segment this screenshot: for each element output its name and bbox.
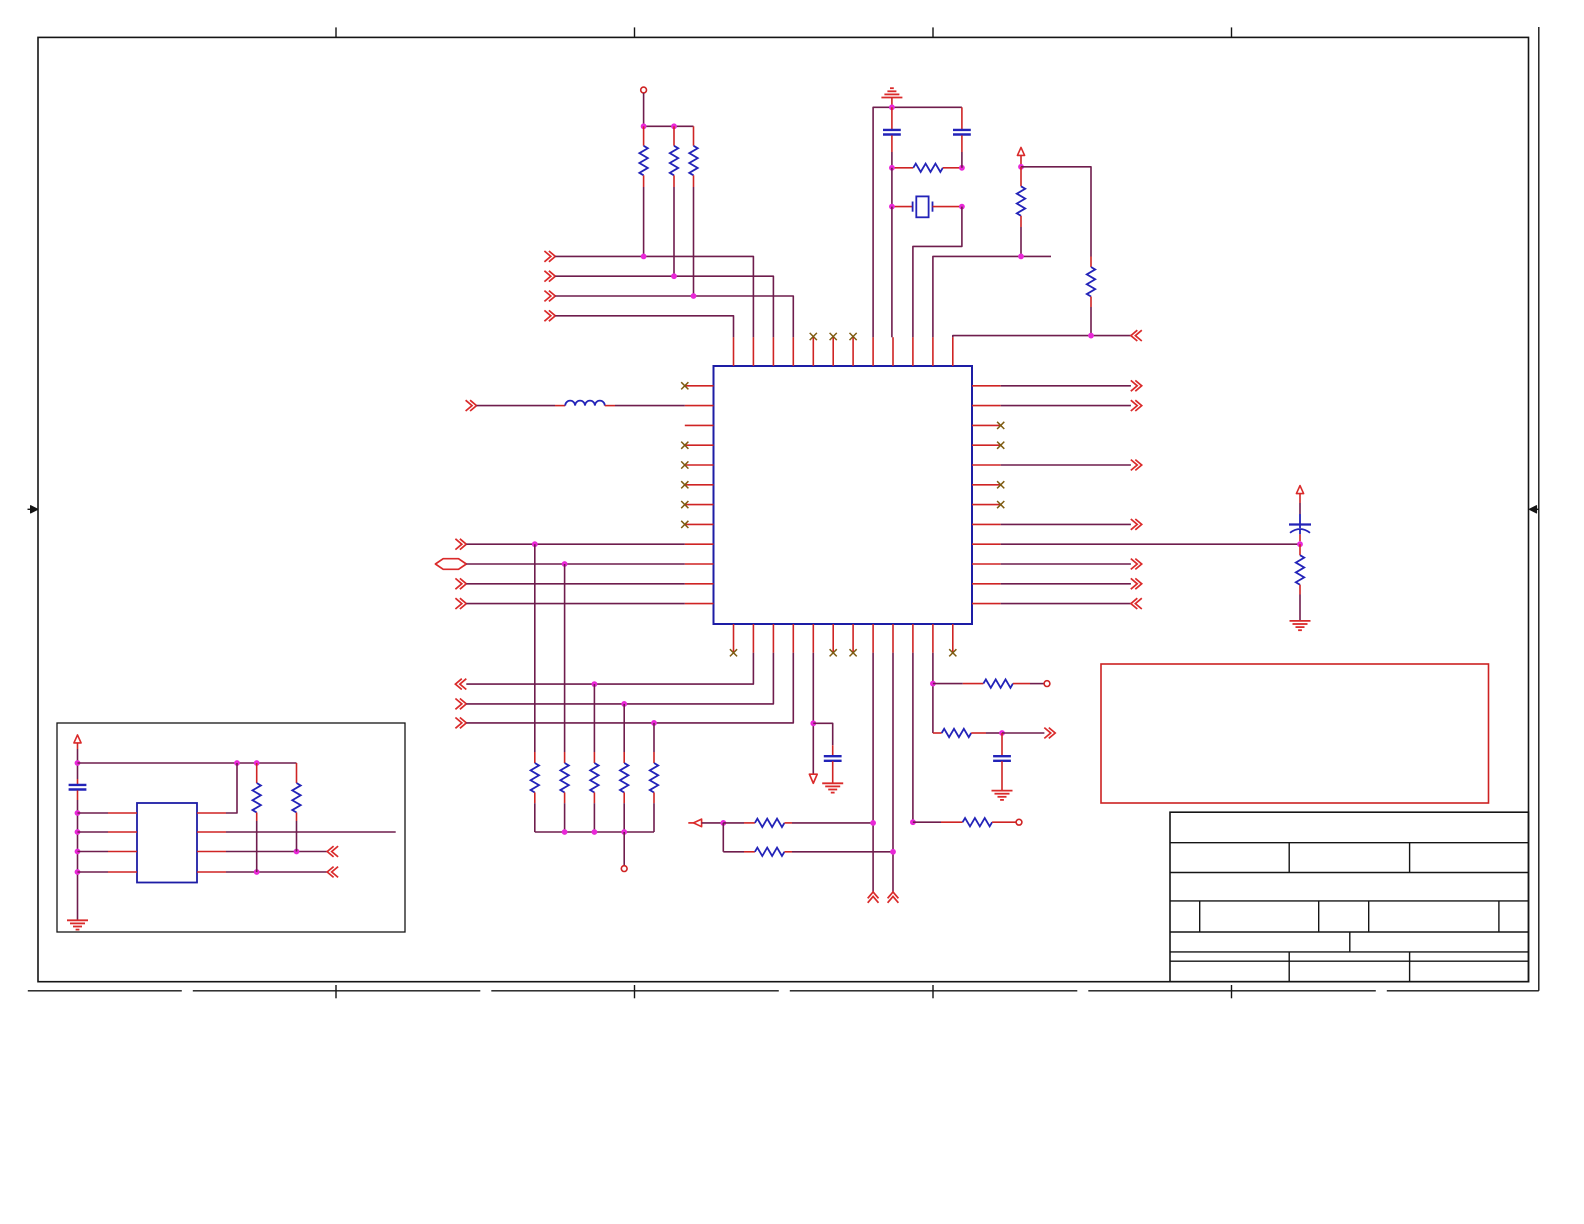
junction row564/riser xyxy=(562,561,568,567)
wire pin933 down xyxy=(932,653,934,733)
wire arrow node down xyxy=(722,823,724,852)
inductor L1 xyxy=(565,401,605,406)
ic U1 body xyxy=(714,366,973,624)
resistor R4 xyxy=(892,167,913,169)
junction bus x=564.6 xyxy=(562,829,568,835)
wire right row y=544.2 long xyxy=(1001,543,1300,545)
wire R18 to row872 xyxy=(256,821,258,872)
junction R17/C5 xyxy=(999,730,1005,736)
capacitor C5 xyxy=(1001,733,1003,756)
resistor R17 xyxy=(933,732,942,734)
wire pin813 down xyxy=(812,653,814,774)
no-connect U1 right pin y=484.8 xyxy=(997,481,1004,488)
junction rail y=851.5 xyxy=(75,849,81,855)
resistor R11 xyxy=(623,752,625,763)
connector input row y=296.0 xyxy=(544,291,555,302)
wire C2 to R4 xyxy=(961,152,963,168)
wire right row y=405.6 xyxy=(1001,405,1131,407)
sheet frame top zone ticks xyxy=(335,27,337,37)
wire row y=544.2 xyxy=(466,543,685,545)
ground GND4 xyxy=(992,790,1013,792)
terminal circle J1 xyxy=(641,87,647,93)
ground GND2 xyxy=(1290,620,1311,622)
junction pin873/R13 xyxy=(870,820,876,826)
wire R5 to row256 xyxy=(1020,227,1022,256)
wire row y=335.6 xyxy=(953,336,1131,338)
wire row y=703.9 xyxy=(466,653,773,704)
connector output row y=335.6 xyxy=(1131,330,1142,341)
wire row y=684.1 xyxy=(466,653,753,684)
ic U1 left pin stubs xyxy=(685,385,714,387)
no-connect U1 top pin x=813.3 xyxy=(810,333,817,340)
junction bus x=624.2 xyxy=(621,829,627,835)
no-connect U1 bottom pin x=733.5 xyxy=(730,649,737,656)
junction row704/riser xyxy=(621,701,627,707)
wire bank riser x=534.8 xyxy=(534,544,536,752)
wire crystal top rail xyxy=(873,107,962,337)
connector output row y=465.0 xyxy=(1131,460,1142,471)
junction row684/riser xyxy=(592,681,598,687)
connector input row y=315.8 xyxy=(544,310,555,321)
wire row y=722.9 xyxy=(466,653,793,723)
no-connect U1 bottom pin x=952.8 xyxy=(949,649,956,656)
no-connect U1 left pin y=524.4 xyxy=(681,521,688,528)
wire row y=564 xyxy=(466,563,685,565)
wire R19 to row851.5 xyxy=(296,821,298,852)
ic U2 body xyxy=(137,803,197,883)
junction rail/R1 xyxy=(641,123,647,129)
wire row y=276.2 to pin x=773.4 xyxy=(555,276,773,337)
hierarchical input arrow xyxy=(688,822,693,824)
wire PWR1 node to right riser xyxy=(1021,167,1091,257)
resistor R14 xyxy=(723,851,744,853)
wire U2 left pin y=851.5 to rail xyxy=(78,851,109,853)
power flag PWR1 xyxy=(1017,147,1024,155)
wire right row y=385.8 xyxy=(1001,385,1131,387)
resistor R9 xyxy=(564,752,566,763)
wire xtal left rail to pin893 xyxy=(891,207,893,338)
junction R4 left xyxy=(889,165,895,171)
ic U1 bottom pin stubs xyxy=(733,624,735,653)
lead L1 left xyxy=(555,405,565,407)
connector output row y=583.8 xyxy=(1131,578,1142,589)
power flag PWR4 down xyxy=(809,774,817,783)
wire right row y=603.6 xyxy=(1001,603,1131,605)
capacitor C6 xyxy=(77,779,79,784)
junction rail y=763 xyxy=(75,760,81,766)
junction bus x=594.4 xyxy=(592,829,598,835)
junction C3/row xyxy=(1297,541,1303,547)
wire PWR2 to C3 xyxy=(1299,503,1301,514)
ground GND5 xyxy=(67,919,88,921)
capacitor C1 xyxy=(891,107,893,129)
connector output row y=405.6 xyxy=(1131,400,1142,411)
wire bank riser x=564.6 xyxy=(564,564,566,752)
terminal circle J3 xyxy=(1016,819,1022,825)
wire R3 to row xyxy=(693,187,695,296)
junction arrow node xyxy=(720,820,726,826)
connector input row y=722.9 xyxy=(455,718,466,729)
connector output row y=524.4 xyxy=(1131,519,1142,530)
wire right row y=465.0 xyxy=(1001,464,1131,466)
wire bank riser lower x=534.8 xyxy=(534,803,536,832)
connector input row L2 xyxy=(466,400,477,411)
wire bank bus y=832 xyxy=(535,831,654,833)
resistor R5 xyxy=(1020,167,1022,187)
notes box xyxy=(1101,664,1489,803)
terminal circle J2 xyxy=(621,866,627,872)
wire row y=315.8 to pin x=733.5 xyxy=(555,316,733,337)
junction row276/R2 xyxy=(671,273,677,279)
resistor R3 xyxy=(693,126,695,146)
wire bank riser x=654.0 xyxy=(653,723,655,752)
terminal circle J4 xyxy=(1044,681,1050,687)
resistor R19 xyxy=(296,763,298,783)
connector chevron up x=873.1 xyxy=(868,892,879,903)
capacitor C2 xyxy=(961,107,963,129)
connector input row y=603.6 xyxy=(1131,598,1142,609)
wire right row y=564.0 xyxy=(1001,563,1131,565)
crystal Y1 xyxy=(892,206,913,208)
wire J1 down xyxy=(643,93,645,126)
no-connect U1 right pin y=445.2 xyxy=(997,442,1004,449)
no-connect U1 left pin y=445.2 xyxy=(681,442,688,449)
wire pin913 down xyxy=(912,653,914,822)
wire row y=256.4 xyxy=(933,256,1051,337)
no-connect U1 top pin x=833.2 xyxy=(830,333,837,340)
ground GND3 xyxy=(822,782,843,784)
wire row y=603.6 xyxy=(466,603,685,605)
junction pin893/R14 xyxy=(890,849,896,855)
connector input row y=276.2 xyxy=(544,271,555,282)
resistor R6 xyxy=(1090,257,1092,268)
wire bank riser lower x=564.6 xyxy=(564,803,566,832)
wire subcircuit top rail xyxy=(78,762,297,764)
no-connect U1 right pin y=425.4 xyxy=(997,422,1004,429)
junction row544/riser xyxy=(532,541,538,547)
ic U1 right pin stubs xyxy=(972,385,1001,387)
resistor R16 xyxy=(933,683,963,685)
wire pin893 down xyxy=(892,653,894,892)
resistor R15 xyxy=(913,821,941,823)
connector input row y=703.9 xyxy=(455,699,466,710)
wire U2 left pin y=813 to rail xyxy=(78,812,109,814)
wire pin873 down xyxy=(872,653,874,892)
wire R2 to row xyxy=(673,187,675,276)
wire row y=583.8 xyxy=(466,583,685,585)
wire right row y=524.4 xyxy=(1001,523,1131,525)
wire xtal left rail xyxy=(891,168,893,207)
wire U2 left pin y=872 to rail xyxy=(78,871,109,873)
title block xyxy=(1170,812,1529,982)
wire bank riser lower x=624.2 xyxy=(623,803,625,832)
capacitor C3 polarized xyxy=(1299,514,1301,528)
junction row723/riser xyxy=(651,720,657,726)
resistor R18 xyxy=(256,763,258,783)
junction R4 right xyxy=(959,165,965,171)
resistor R12 xyxy=(653,752,655,763)
connector input row y=544.2 xyxy=(455,539,466,550)
resistor R1 xyxy=(643,126,645,146)
resistor R8 xyxy=(534,752,536,763)
wire row y=296.0 to pin x=793.3 xyxy=(555,296,793,337)
wire row y=256.4 to pin x=753.4 xyxy=(555,256,753,337)
junction Y1 left xyxy=(889,204,895,210)
wire top rail y=126.3 xyxy=(644,125,694,127)
wire U2 left pin y=832 to rail xyxy=(78,831,109,833)
connector chevron up x=893 xyxy=(888,892,899,903)
wire U2 pin832 row xyxy=(226,831,396,833)
wire bank riser x=624.2 xyxy=(623,704,625,752)
junction Y1 right xyxy=(959,204,965,210)
junction gnd/rail xyxy=(889,104,895,110)
wire bank riser lower x=654.0 xyxy=(653,803,655,832)
lead L1 right xyxy=(605,405,615,407)
sheet frame bottom outer border segments and ticks xyxy=(28,990,182,992)
resistor R13 xyxy=(723,822,744,824)
resistor R10 xyxy=(593,752,595,763)
power flag PWR3 xyxy=(74,735,81,743)
sheet frame right centering arrow xyxy=(1536,508,1539,510)
wire R7 to ground xyxy=(1299,595,1301,621)
junction row296/R3 xyxy=(691,293,697,299)
wire PWR3 rail lower xyxy=(77,800,79,920)
junction row872/R18 xyxy=(254,869,260,875)
resistor R2 xyxy=(673,126,675,146)
junction toprail/R18 xyxy=(254,760,260,766)
power flag PWR2 xyxy=(1296,486,1303,494)
wire R1 to row xyxy=(643,187,645,256)
subcircuit box xyxy=(57,723,405,932)
junction rail/R2 xyxy=(671,123,677,129)
wire pin813 to C4 xyxy=(813,723,832,745)
wire U2 pin813 riser xyxy=(226,763,237,813)
wire U2 pin851.5 row xyxy=(226,851,327,853)
connector output row y=851.5 xyxy=(327,846,338,857)
connector input row y=583.8 xyxy=(455,578,466,589)
connector output row y=733 xyxy=(1044,728,1055,739)
wire R13 to pin873 riser xyxy=(792,822,873,824)
junction pin913 node xyxy=(910,819,916,825)
wire U2 pin872 row xyxy=(226,871,327,873)
wire xtal right rail to pin913 xyxy=(913,207,962,338)
ic U2 right pin stubs xyxy=(197,812,226,814)
wire bank riser lower x=594.4 xyxy=(593,803,595,832)
no-connect U1 left pin y=504.6 xyxy=(681,501,688,508)
sheet frame left centering arrow xyxy=(28,508,31,510)
no-connect U1 left pin y=385.8 xyxy=(681,382,688,389)
ic U2 left pin stubs xyxy=(108,812,137,814)
connector output row y=684.1 xyxy=(455,679,466,690)
junction pin933 node xyxy=(930,681,936,687)
connector bidirectional row y=564 xyxy=(435,559,466,570)
junction row256/R5 xyxy=(1018,254,1024,260)
wire bank riser x=594.4 xyxy=(593,684,595,752)
connector input row y=603.6 xyxy=(455,598,466,609)
wire inductor row right xyxy=(615,405,685,407)
junction row256/R1 xyxy=(641,254,647,260)
connector output row y=872 xyxy=(327,867,338,878)
ground GND1 inverted xyxy=(881,97,902,99)
capacitor C4 xyxy=(832,745,834,755)
junction pin813/cap branch xyxy=(810,720,816,726)
no-connect U1 left pin y=484.8 xyxy=(681,481,688,488)
junction row335/R6 xyxy=(1088,333,1094,339)
wire C1 to R4 xyxy=(891,152,893,168)
sheet frame right outer border line xyxy=(1538,27,1540,991)
wire R17 node to connector xyxy=(1002,732,1044,734)
connector input row y=256.4 xyxy=(544,251,555,262)
junction rail y=813 xyxy=(75,810,81,816)
wire PWR3 rail upper xyxy=(77,749,79,779)
junction PWR1 node xyxy=(1018,164,1024,170)
wire bus to terminal xyxy=(623,832,625,866)
no-connect U1 top pin x=853.1 xyxy=(850,333,857,340)
wire R14 to pin893 riser xyxy=(792,851,893,853)
wire R6 to row335 xyxy=(1090,307,1092,336)
no-connect U1 left pin y=465.0 xyxy=(681,461,688,468)
no-connect U1 bottom pin x=853.1 xyxy=(850,649,857,656)
wire right row y=583.8 xyxy=(1001,583,1131,585)
connector output row y=385.8 xyxy=(1131,380,1142,391)
junction rail y=872 xyxy=(75,869,81,875)
ic U1 top pin stubs xyxy=(733,337,735,366)
connector output row y=564.0 xyxy=(1131,559,1142,570)
no-connect U1 bottom pin x=833.2 xyxy=(830,649,837,656)
no-connect U1 right pin y=504.6 xyxy=(997,501,1004,508)
wire arrow to junction xyxy=(702,822,724,824)
junction toprail/pin riser xyxy=(234,760,240,766)
resistor R7 xyxy=(1299,544,1301,555)
junction rail y=832 xyxy=(75,829,81,835)
sheet frame inner border xyxy=(38,37,1529,981)
junction row851.5/R19 xyxy=(294,849,300,855)
wire inductor row left xyxy=(477,405,556,407)
